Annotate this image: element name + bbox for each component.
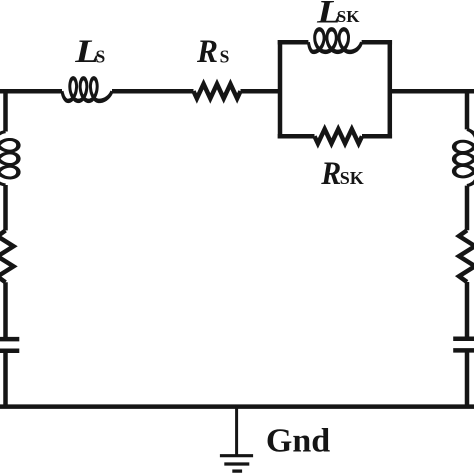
- inductor L_SK: [307, 27, 363, 54]
- wire Ls to Rs: [112, 89, 194, 94]
- node box right edge (parallel branch): [388, 40, 393, 139]
- inductor left branch: [0, 130, 21, 186]
- svg-text:SK: SK: [340, 168, 364, 188]
- ground: [220, 407, 253, 472]
- svg-text:S: S: [96, 47, 106, 67]
- resistor right branch: [459, 230, 474, 282]
- wire left resistor to capacitor: [3, 282, 8, 339]
- wire box bottom edge left part: [278, 134, 315, 139]
- wire left branch upper: [3, 89, 8, 132]
- wire left capacitor to bottom: [3, 351, 8, 407]
- wire box bottom edge right part: [362, 134, 392, 139]
- wire box top edge left part: [278, 40, 309, 45]
- inductor L_S: [61, 76, 114, 103]
- wire right branch upper: [465, 91, 470, 129]
- svg-text:R: R: [196, 34, 218, 70]
- capacitor left branch: [0, 339, 19, 351]
- label Rsk: [320, 156, 363, 192]
- label Ls: [74, 34, 105, 70]
- wire left coil to resistor: [3, 185, 8, 230]
- wire right coil to resistor: [465, 186, 470, 231]
- wire box top edge right part: [362, 40, 392, 45]
- capacitor right branch: [453, 339, 474, 351]
- resistor R_S: [194, 84, 241, 98]
- resistor R_SK: [315, 129, 363, 143]
- resistor left branch: [0, 230, 14, 282]
- svg-text:Gnd: Gnd: [266, 422, 330, 459]
- node box left edge (parallel branch): [278, 40, 283, 139]
- wire bottom rail: [0, 404, 474, 409]
- wire right resistor to capacitor: [465, 282, 470, 339]
- wire Rs to box: [241, 89, 281, 94]
- wire box to top-right corner: [390, 89, 474, 94]
- inductor right branch: [452, 128, 474, 187]
- wire right capacitor to bottom: [465, 350, 470, 406]
- svg-text:R: R: [320, 156, 341, 192]
- wire top-left segment: [0, 89, 62, 94]
- svg-text:SK: SK: [337, 7, 360, 26]
- label Lsk: [316, 0, 360, 30]
- svg-text:S: S: [220, 47, 230, 67]
- label Rs: [196, 34, 229, 70]
